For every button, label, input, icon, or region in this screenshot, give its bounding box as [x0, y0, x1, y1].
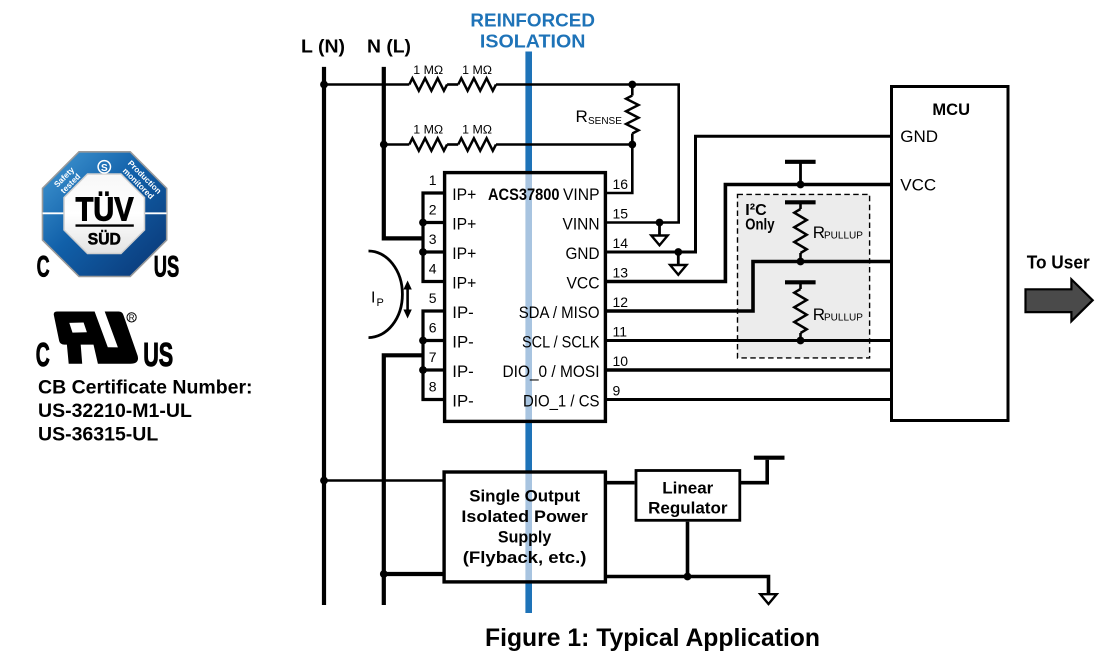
svg-text:VCC: VCC	[567, 275, 600, 293]
VCC supply bar symbol above MCU VCC wire	[785, 160, 816, 164]
wire N(L) to R3	[384, 143, 410, 146]
MCU block	[892, 87, 1009, 421]
wire L(N) to R1	[324, 83, 409, 86]
junction dot linear regulator ground	[684, 573, 692, 581]
wire DIO_0/MOSI pin 10 to MCU	[606, 368, 891, 372]
svg-text:1 MΩ: 1 MΩ	[413, 63, 443, 77]
wire GND pin 14 to MCU GND	[606, 136, 891, 252]
Safety tested curved text	[52, 165, 82, 195]
junction dot RSENSE top	[628, 81, 636, 89]
wire R3 to R4	[447, 143, 458, 146]
svg-text:3: 3	[429, 231, 437, 247]
svg-text:1: 1	[429, 172, 437, 188]
registered trademark symbol	[127, 313, 136, 322]
VCC supply bar for RPULLUP1	[785, 200, 816, 204]
UL recognized component logo (reversed UR mark)	[54, 312, 138, 364]
junction dot GND pin ground	[674, 248, 682, 256]
svg-text:S: S	[101, 163, 108, 174]
svg-text:(Flyback, etc.): (Flyback, etc.)	[463, 548, 587, 567]
Production monitored curved text	[120, 159, 163, 202]
isolation line dark segment below power supply	[525, 582, 532, 613]
svg-text:SENSE: SENSE	[588, 116, 622, 127]
svg-text:IP-: IP-	[452, 304, 474, 322]
svg-text:R: R	[576, 107, 588, 126]
svg-text:Supply: Supply	[498, 528, 552, 547]
wire isolated ground rail to ground symbol	[607, 577, 769, 594]
isolation line dark segment between IC and power supply	[525, 421, 532, 472]
svg-text:10: 10	[613, 353, 629, 369]
svg-text:11: 11	[613, 324, 628, 340]
svg-text:PULLUP: PULLUP	[824, 313, 863, 324]
resistor R2 1 Mohm top-right	[458, 78, 496, 90]
svg-text:SÜD: SÜD	[88, 229, 121, 248]
svg-text:Linear: Linear	[662, 479, 713, 498]
junction dot RPULLUP2 bottom	[797, 337, 805, 345]
wire RSENSE top stub	[631, 85, 634, 96]
svg-text:IP-: IP-	[452, 334, 474, 352]
svg-text:ACS37800: ACS37800	[488, 186, 560, 204]
ground stub at GND pin	[677, 252, 680, 265]
svg-text:C: C	[36, 336, 50, 373]
svg-text:CB Certificate Number:: CB Certificate Number:	[38, 376, 253, 398]
svg-text:1 MΩ: 1 MΩ	[462, 63, 492, 77]
svg-text:US: US	[154, 250, 180, 283]
svg-text:IP+: IP+	[452, 186, 476, 204]
svg-text:Isolated Power: Isolated Power	[461, 507, 588, 526]
svg-text:8: 8	[429, 379, 437, 395]
svg-text:IP+: IP+	[452, 245, 476, 263]
junction dot RPULLUP1 bottom	[797, 258, 805, 266]
I2C Only dashed region	[738, 194, 870, 358]
svg-text:16: 16	[613, 176, 629, 192]
svg-text:GND: GND	[566, 245, 600, 263]
ground symbol at GND pin	[670, 265, 686, 275]
svg-text:14: 14	[613, 235, 629, 251]
svg-text:IP-: IP-	[452, 363, 474, 381]
junction dot VINN ground	[656, 219, 664, 227]
wire power supply output to linear regulator	[607, 481, 635, 485]
op-amp ACS37800 IC body	[445, 173, 606, 422]
svg-text:To User: To User	[1027, 253, 1090, 273]
wire N(L) tap to power supply	[384, 572, 443, 576]
svg-text:7: 7	[429, 349, 437, 365]
resistor R4 1 Mohm lower-right	[458, 138, 496, 150]
svg-text:IP+: IP+	[452, 216, 476, 234]
resistor R1 1 Mohm top-left	[409, 78, 447, 90]
svg-text:SCL / SCLK: SCL / SCLK	[522, 334, 600, 352]
svg-text:ISOLATION: ISOLATION	[480, 31, 586, 52]
wire DIO_1/CS pin 9 to MCU	[606, 398, 891, 401]
linear regulator block	[636, 471, 740, 521]
svg-text:I: I	[371, 290, 375, 307]
ground symbol at VINN	[651, 236, 667, 246]
svg-text:Figure 1: Typical Application: Figure 1: Typical Application	[485, 624, 820, 652]
svg-text:2: 2	[429, 202, 437, 218]
svg-text:P: P	[377, 297, 384, 309]
svg-text:IP+: IP+	[452, 275, 476, 293]
svg-text:REINFORCED: REINFORCED	[470, 10, 595, 31]
wire N(L) vertical rail to IP+ junction	[384, 67, 423, 239]
S circle symbol	[98, 161, 110, 173]
power supply block	[444, 472, 605, 582]
Ip double-headed arrow	[406, 288, 409, 312]
junction dot RSENSE bottom	[628, 141, 636, 149]
wire IP- junction down to bottom rail	[384, 355, 423, 605]
svg-text:L (N): L (N)	[301, 35, 345, 56]
wire RSENSE node down to VINP pin 16	[606, 145, 632, 194]
junction dot N(L) power tap	[380, 570, 388, 578]
svg-text:Single Output: Single Output	[469, 487, 580, 506]
junction dot N(L) second wire	[380, 141, 388, 149]
svg-text:GND: GND	[900, 127, 938, 146]
wire R4 to RSENSE bottom node	[496, 143, 632, 146]
reinforced isolation barrier line (dark segment above IC)	[525, 52, 532, 174]
svg-text:5: 5	[429, 290, 437, 306]
svg-text:MCU: MCU	[932, 100, 970, 119]
To User arrow	[1026, 279, 1093, 321]
svg-text:US: US	[143, 336, 173, 373]
svg-text:R: R	[129, 313, 135, 322]
wire VCC pin 13 to MCU VCC	[606, 185, 891, 282]
resistor RPULLUP2	[794, 289, 806, 333]
svg-text:12: 12	[613, 294, 629, 310]
svg-text:TÜV: TÜV	[76, 190, 134, 227]
svg-text:4: 4	[429, 261, 437, 277]
wire L(N) tap to power supply	[324, 479, 443, 482]
wire R1 to R2	[447, 83, 458, 86]
wire linear regulator output to VCC bar	[741, 460, 767, 483]
svg-text:1 MΩ: 1 MΩ	[413, 123, 443, 137]
resistor RPULLUP1	[794, 209, 806, 253]
resistor R3 1 Mohm lower-left	[409, 138, 447, 150]
svg-text:SDA / MISO: SDA / MISO	[519, 304, 600, 322]
svg-text:1 MΩ: 1 MΩ	[462, 123, 492, 137]
TUV SUD certification logo octagon	[37, 152, 180, 284]
isolation line light segment inside power supply box	[525, 472, 532, 583]
svg-text:US-32210-M1-UL: US-32210-M1-UL	[38, 400, 192, 422]
VCC supply bar for RPULLUP2	[785, 280, 816, 284]
wire SCL/SCLK pin 11 to MCU	[606, 339, 891, 342]
wire R2 to VINN pin 15	[496, 85, 679, 223]
svg-text:VINP: VINP	[563, 186, 600, 204]
svg-text:6: 6	[429, 320, 437, 336]
junction dot IP+ bracket pin2	[419, 219, 427, 227]
svg-text:DIO_1 / CS: DIO_1 / CS	[523, 393, 600, 411]
isolation line light segment inside IC	[525, 173, 532, 421]
IP- pin bracket (pins 5-8)	[423, 311, 444, 400]
svg-text:13: 13	[613, 265, 629, 281]
junction dot L(N) top wire	[320, 81, 328, 89]
ground symbol at isolated supply output	[760, 594, 776, 604]
wire RSENSE bottom stub	[631, 134, 634, 145]
junction dot VCC rail	[797, 181, 805, 189]
ground stub at VINN	[658, 223, 661, 236]
junction dot IP+ bracket pin3	[419, 248, 427, 256]
junction dot IP- bracket pin7	[419, 366, 427, 374]
junction dot L(N) power tap	[320, 477, 328, 485]
svg-text:N (L): N (L)	[367, 35, 411, 56]
svg-text:9: 9	[613, 383, 621, 399]
wire SDA/MISO pin 12 to MCU	[606, 262, 891, 312]
svg-text:Only: Only	[745, 217, 775, 234]
svg-text:PULLUP: PULLUP	[824, 231, 863, 242]
svg-text:IP-: IP-	[452, 393, 474, 411]
svg-text:VINN: VINN	[563, 216, 600, 234]
svg-text:DIO_0 / MOSI: DIO_0 / MOSI	[503, 363, 600, 381]
svg-text:US-36315-UL: US-36315-UL	[38, 423, 158, 445]
IP+ pin bracket (pins 1-4)	[423, 193, 444, 282]
wire linear regulator ground drop	[686, 522, 690, 577]
wire L(N) vertical rail	[322, 67, 326, 605]
svg-text:VCC: VCC	[900, 176, 936, 195]
resistor RSENSE	[626, 96, 638, 134]
svg-text:Regulator: Regulator	[648, 499, 728, 518]
svg-text:15: 15	[613, 206, 629, 222]
UL logo white counter	[69, 323, 87, 333]
VCC supply bar at linear regulator output	[754, 456, 785, 460]
current path arc Ip	[369, 251, 403, 338]
svg-text:C: C	[37, 250, 50, 283]
junction dot IP- bracket pin6	[419, 337, 427, 345]
